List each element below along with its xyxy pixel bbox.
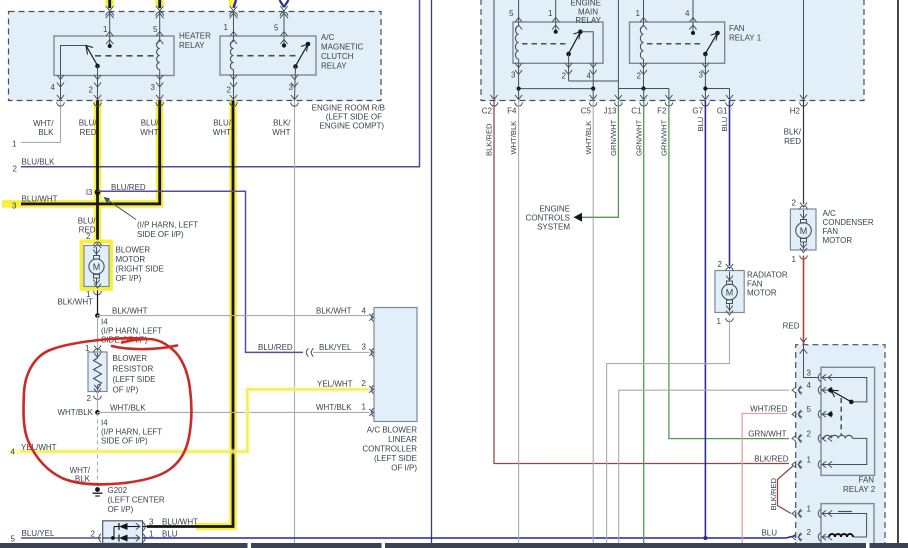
node I4 junction dot (upper)	[95, 313, 100, 318]
motor BLOWER MOTOR box	[84, 246, 109, 287]
blower motor yellow highlight frame	[82, 242, 112, 290]
lower relay switch	[821, 514, 867, 538]
svg-text:(I/P HARN, LEFT: (I/P HARN, LEFT	[101, 327, 162, 336]
svg-text:F4: F4	[507, 107, 517, 116]
H2 riser wire	[803, 0, 805, 101]
fr1 pin3 lead	[704, 54, 706, 89]
wire RED condenser to FR2	[803, 256, 805, 345]
relay lower box	[821, 504, 874, 548]
heater relay pin2 lead	[97, 66, 99, 101]
svg-text:2: 2	[807, 429, 812, 438]
wire C2 BLK/RED	[494, 101, 789, 464]
yellow glow YEL/WHT	[8, 389, 370, 451]
ip harn callout arrow at I3	[104, 198, 136, 220]
fr2 pin connectors and numbers	[818, 373, 820, 381]
svg-text:RED: RED	[80, 128, 97, 137]
resistor BLOWER RESISTOR box	[88, 352, 107, 392]
wire A/C pin3 BLK/WHT long	[294, 101, 296, 544]
red wire entry arrow	[800, 338, 807, 342]
svg-text:BLU/RED: BLU/RED	[111, 183, 146, 192]
svg-text:1: 1	[807, 456, 812, 465]
heater relay pin3 chevrons	[156, 75, 163, 80]
node BLU-G7 junction	[703, 536, 707, 540]
svg-text:ENGINE ROOM R/B: ENGINE ROOM R/B	[312, 104, 385, 113]
wire F2 GRN/WHT	[669, 101, 789, 439]
svg-text:1: 1	[548, 9, 553, 18]
emr mech dashed link	[522, 43, 566, 45]
svg-text:RED: RED	[783, 322, 800, 331]
emr pin3 lead	[518, 63, 520, 88]
svg-text:FAN: FAN	[747, 280, 763, 289]
wire G1 BLU	[729, 101, 731, 267]
svg-text:4: 4	[587, 72, 592, 81]
svg-text:RED: RED	[784, 137, 801, 146]
svg-text:HEATER: HEATER	[179, 32, 211, 41]
fr1 switch arm	[705, 33, 717, 54]
svg-text:RELAY: RELAY	[179, 41, 205, 50]
svg-text:RELAY 2: RELAY 2	[843, 485, 876, 494]
svg-text:M: M	[726, 287, 734, 297]
wire BLU/WHT connector 3 (thick)	[21, 101, 160, 204]
svg-text:(LEFT SIDE: (LEFT SIDE	[113, 375, 156, 384]
svg-text:WHT/BLK: WHT/BLK	[316, 403, 352, 412]
wire heater pin5 top stub	[156, 0, 164, 7]
svg-text:ENGINE COMPT): ENGINE COMPT)	[320, 122, 385, 131]
condenser motor symbol	[800, 202, 807, 207]
svg-text:WHT/BLK: WHT/BLK	[110, 404, 146, 413]
yellow highlight glow BLU/WHT pin3 path	[2, 101, 160, 204]
ground G202	[95, 487, 100, 492]
svg-text:5: 5	[807, 405, 812, 414]
emr pin1 contact	[554, 30, 558, 34]
svg-text:1: 1	[807, 505, 812, 514]
svg-text:H2: H2	[790, 107, 801, 116]
svg-text:2: 2	[227, 86, 232, 95]
svg-text:M: M	[800, 226, 808, 236]
wire BLU/RED heater pin2 (thick)	[96, 101, 99, 242]
emr pin1 wire	[555, 0, 557, 32]
svg-text:MAGNETIC: MAGNETIC	[321, 43, 363, 52]
svg-text:1: 1	[362, 403, 367, 412]
J13 riser wire	[617, 0, 619, 89]
svg-text:4: 4	[685, 9, 690, 18]
wire BLU/RED branch (purple)	[98, 191, 304, 352]
svg-text:YEL/WHT: YEL/WHT	[21, 443, 57, 452]
svg-text:RELAY: RELAY	[321, 62, 347, 71]
long dark vertical wire	[431, 0, 433, 543]
a/c relay pin3 lead	[295, 67, 296, 101]
junction dot emr pin3 bus	[517, 87, 521, 91]
svg-text:CONTROLS: CONTROLS	[526, 214, 570, 223]
svg-text:LINEAR: LINEAR	[388, 435, 417, 444]
relay FAN RELAY 1 box	[630, 22, 725, 63]
svg-text:GRN/WHT: GRN/WHT	[609, 119, 618, 156]
svg-text:2: 2	[89, 86, 94, 95]
wire C1 GRN/WHT	[643, 101, 645, 544]
paren diode pin3	[143, 522, 145, 530]
svg-text:MOTOR: MOTOR	[823, 236, 853, 245]
svg-text:SYSTEM: SYSTEM	[537, 223, 570, 232]
svg-text:OF I/P): OF I/P)	[391, 464, 417, 473]
svg-text:OF I/P): OF I/P)	[113, 386, 139, 395]
svg-text:4: 4	[11, 448, 16, 457]
emr pin4 lead	[592, 63, 594, 88]
fr1 mech dashed link	[647, 43, 701, 45]
wire YEL/WHT connector 4	[21, 389, 370, 451]
svg-text:2: 2	[792, 199, 797, 208]
svg-text:BLOWER: BLOWER	[113, 354, 148, 363]
svg-text:1: 1	[149, 530, 154, 539]
svg-text:2: 2	[807, 528, 812, 537]
wire BLK/WHT controller segment	[97, 316, 99, 318]
svg-text:C5: C5	[581, 107, 592, 116]
relay A/C MAGNETIC CLUTCH RELAY box	[220, 36, 316, 75]
svg-text:A/C BLOWER: A/C BLOWER	[367, 426, 417, 435]
lower relay coil	[853, 536, 867, 538]
svg-text:CLUTCH: CLUTCH	[321, 52, 354, 61]
engine controls arrow	[574, 213, 583, 222]
svg-text:CONDENSER: CONDENSER	[823, 218, 874, 227]
heater relay switch arm	[86, 46, 98, 66]
fr2 coil row	[821, 437, 824, 439]
wire A/C pin2 BLU/WHT long (thick)	[147, 101, 233, 527]
svg-text:BLK/WHT: BLK/WHT	[57, 298, 93, 307]
svg-text:MOTOR: MOTOR	[116, 255, 146, 264]
bottom bar segment 2	[251, 543, 382, 548]
svg-text:WHT/BLK: WHT/BLK	[57, 408, 93, 417]
svg-text:BLK/YEL: BLK/YEL	[319, 343, 352, 352]
svg-text:BLU/YEL: BLU/YEL	[22, 529, 55, 538]
svg-text:WHT/: WHT/	[33, 119, 54, 128]
svg-text:(LEFT SIDE OF: (LEFT SIDE OF	[326, 113, 382, 122]
svg-text:ENGINE: ENGINE	[539, 205, 570, 214]
svg-text:WHT: WHT	[140, 128, 158, 137]
svg-text:1: 1	[85, 344, 90, 353]
svg-text:BLK/RED: BLK/RED	[485, 123, 494, 156]
svg-text:2: 2	[87, 394, 92, 403]
connector splice BLU/RED-BLK/YEL	[306, 348, 308, 356]
svg-text:BLU/: BLU/	[79, 119, 98, 128]
wire gray to FR2 pin4	[619, 390, 789, 543]
wire H2 BLK/RED to condenser motor	[803, 101, 805, 205]
relay ENGINE MAIN RELAY box	[513, 22, 603, 63]
svg-text:YEL/WHT: YEL/WHT	[317, 380, 353, 389]
wire G7 BLU	[704, 101, 706, 539]
fr2 pin4 contact	[828, 388, 833, 393]
svg-text:BLU: BLU	[696, 117, 705, 132]
wire red inside box to pin3	[804, 345, 820, 378]
wire BLK/RED jog	[778, 466, 794, 514]
svg-text:GRN/WHT: GRN/WHT	[748, 430, 786, 439]
fan relay 2 dashed box	[796, 345, 885, 548]
svg-text:BLK/WHT: BLK/WHT	[316, 307, 352, 316]
bottom bar gap backing	[866, 543, 870, 548]
node WHT/BLK junction dot (lower I4)	[95, 410, 100, 415]
emr coil	[518, 0, 520, 26]
svg-text:F2: F2	[657, 107, 667, 116]
wire dashed WHT/BLK to ground	[97, 412, 99, 487]
svg-text:I4: I4	[101, 318, 108, 327]
bus stubs to connector row	[518, 89, 520, 99]
svg-text:1: 1	[717, 317, 722, 326]
svg-text:(I/P HARN, LEFT: (I/P HARN, LEFT	[137, 221, 198, 230]
svg-text:WHT/BLK: WHT/BLK	[584, 121, 593, 155]
heater relay pin4 lead	[60, 76, 62, 101]
svg-text:C1: C1	[631, 107, 642, 116]
fr2 pin5 contact	[828, 412, 833, 417]
wire radiator pin1 gray	[607, 319, 730, 543]
svg-text:WHT/BLK: WHT/BLK	[509, 121, 518, 155]
svg-text:4: 4	[362, 307, 367, 316]
svg-text:J13: J13	[604, 107, 617, 116]
fr2 pin5 internal	[821, 413, 831, 415]
annotation red circle	[24, 338, 192, 484]
bottom bar segment 1	[0, 543, 248, 548]
svg-text:BLU/: BLU/	[78, 217, 97, 226]
svg-text:5: 5	[274, 24, 279, 33]
emr pivot link to pin4	[580, 32, 593, 64]
wire C5 WHT/BLK	[592, 101, 594, 544]
svg-text:BLU/BLK: BLU/BLK	[22, 158, 56, 167]
svg-text:3: 3	[362, 343, 367, 352]
wire BLU/YEL connector 5	[21, 537, 101, 539]
svg-text:4: 4	[807, 381, 812, 390]
paren diode pin1	[143, 534, 145, 542]
fr2 pin4 internal	[821, 389, 831, 391]
wire WHT/RED	[742, 414, 787, 544]
engine room R/B dashed box (right)	[481, 0, 864, 101]
fr1 coil	[643, 0, 645, 26]
svg-text:1: 1	[636, 9, 641, 18]
svg-text:1: 1	[12, 140, 17, 149]
a/c relay switch arm	[296, 44, 309, 66]
emr switch contact	[566, 52, 571, 57]
a/c relay mech dashed link	[237, 55, 299, 57]
a/c relay coil	[233, 12, 235, 42]
svg-text:GRN/WHT: GRN/WHT	[634, 119, 643, 156]
a/c relay pin5 contact	[282, 43, 286, 47]
svg-text:C2: C2	[482, 107, 493, 116]
junction dot fr1 pin2 bus	[641, 86, 645, 90]
bottom bar segment 3	[385, 543, 866, 548]
svg-text:1: 1	[103, 25, 108, 34]
svg-text:BLK/: BLK/	[273, 119, 291, 128]
svg-text:2: 2	[718, 260, 723, 269]
heater relay switch contact	[95, 64, 100, 69]
svg-text:BLU: BLU	[720, 117, 729, 132]
yellow highlight glow A/C BLU/WHT long path	[196, 101, 233, 527]
lower relay connectors	[818, 509, 820, 517]
a/c relay switch pivot	[306, 42, 311, 47]
svg-text:5: 5	[11, 535, 16, 544]
svg-text:BLU/: BLU/	[213, 119, 232, 128]
wire BLU/BLK connector 2	[21, 0, 420, 167]
svg-text:I3: I3	[86, 188, 93, 197]
wire F4 WHT/BLK	[518, 101, 520, 544]
heater relay coil	[159, 12, 161, 42]
wire a/c pin5 top stub	[280, 0, 285, 7]
wire I4 to resistor	[97, 316, 99, 352]
controller pin connectors	[371, 313, 373, 321]
wire resistor to WHT/BLK junction	[97, 391, 99, 412]
J13-C1-F2 bus	[618, 88, 669, 90]
svg-text:BLK/RED: BLK/RED	[769, 477, 778, 510]
svg-text:5: 5	[509, 9, 514, 18]
emr pin2 lead	[568, 54, 570, 81]
svg-text:2: 2	[562, 72, 567, 81]
svg-text:4: 4	[51, 83, 56, 92]
svg-text:RADIATOR: RADIATOR	[747, 271, 788, 280]
svg-text:(LEFT CENTER: (LEFT CENTER	[108, 496, 165, 505]
junction dot emr pin4 bus	[591, 87, 595, 91]
svg-text:2: 2	[637, 72, 642, 81]
svg-text:3: 3	[699, 71, 704, 80]
svg-text:RELAY: RELAY	[575, 16, 601, 25]
a/c relay pin5 wire	[283, 12, 285, 46]
svg-text:WHT: WHT	[272, 128, 290, 137]
svg-text:3: 3	[12, 202, 17, 211]
svg-text:BLU/RED: BLU/RED	[258, 343, 293, 352]
wire WHT/BLK to controller pin1	[98, 411, 370, 413]
yellow highlight glow BLU/RED vertical	[94, 101, 102, 242]
emr pin3-pin4 bus	[519, 88, 594, 90]
heater relay mech dashed link	[95, 55, 157, 57]
bottom bar segment 4	[870, 543, 908, 548]
heater relay pin1 contact	[108, 44, 112, 48]
wire J13 GRN/WHT to engine controls	[581, 101, 618, 218]
svg-text:BLU: BLU	[761, 529, 777, 538]
svg-text:RELAY 1: RELAY 1	[729, 34, 762, 43]
svg-text:SIDE OF I/P): SIDE OF I/P)	[137, 230, 184, 239]
svg-text:BLU/: BLU/	[141, 119, 160, 128]
diode pair symbols	[113, 527, 115, 539]
svg-text:OF I/P): OF I/P)	[116, 274, 142, 283]
svg-text:(I/P HARN, LEFT: (I/P HARN, LEFT	[101, 428, 162, 437]
svg-text:A/C: A/C	[321, 33, 335, 42]
A/C blower linear controller box	[374, 308, 417, 422]
emr pin2 wire to J13 riser	[569, 80, 619, 82]
junction dot fr1 pin3 bus	[703, 86, 707, 90]
fr1 pin3 bus to G1	[705, 88, 729, 90]
svg-text:(LEFT SIDE: (LEFT SIDE	[374, 454, 417, 463]
motor RADIATOR FAN MOTOR box	[715, 271, 744, 313]
svg-text:(RIGHT SIDE: (RIGHT SIDE	[116, 265, 164, 274]
wire BLK/YEL to controller	[313, 351, 370, 353]
fr2 pin3 internal path	[821, 378, 867, 402]
fr2 dashed-edge connectors	[799, 386, 801, 394]
wire BLU/WHT diode link	[143, 526, 147, 528]
wire a/c pin1 top stub	[229, 0, 234, 6]
engine room R/B dashed box (left)	[9, 12, 382, 101]
svg-text:RESISTOR: RESISTOR	[113, 365, 154, 374]
motor A/C CONDENSER FAN MOTOR box	[790, 209, 816, 250]
svg-text:A/C: A/C	[823, 209, 837, 218]
fr2 mech dashed link	[840, 398, 842, 436]
blower motor symbol	[94, 244, 101, 249]
svg-text:G1: G1	[717, 107, 728, 116]
svg-text:FAN: FAN	[823, 227, 839, 236]
fr1 pin4 wire	[692, 0, 694, 33]
svg-text:FAN: FAN	[729, 24, 745, 33]
svg-text:3: 3	[149, 518, 154, 527]
svg-text:BLOWER: BLOWER	[116, 246, 151, 255]
svg-text:OF I/P): OF I/P)	[108, 505, 134, 514]
svg-text:MOTOR: MOTOR	[747, 289, 777, 298]
left box bottom edge connectors	[57, 95, 64, 100]
heater relay pin1 wire	[109, 12, 111, 46]
radiator motor symbol	[726, 264, 733, 269]
svg-text:WHT: WHT	[213, 128, 231, 137]
fr2 switch arm	[831, 390, 852, 402]
svg-text:BLK: BLK	[38, 128, 54, 137]
svg-text:FAN: FAN	[859, 476, 875, 485]
svg-text:G202: G202	[108, 486, 128, 495]
wire WHT/BLK pin4 to connector 1	[21, 101, 61, 143]
svg-text:2: 2	[13, 165, 18, 174]
wire BLK/WHT below motor	[97, 291, 99, 316]
svg-text:2: 2	[362, 379, 367, 388]
svg-text:SIDE OF I/P): SIDE OF I/P)	[101, 437, 148, 446]
relay FAN RELAY 2 box	[821, 367, 875, 475]
fr1 switch contact	[703, 52, 708, 57]
connector row chevrons C2 F4 C5 J13 C1 F2 G7 G1 H2	[490, 95, 497, 100]
svg-text:BLU/WHT: BLU/WHT	[162, 518, 198, 527]
emr switch arm	[569, 32, 581, 54]
wire heater pin1 top stub	[106, 0, 114, 7]
node I3 junction dot	[95, 189, 101, 195]
svg-text:3: 3	[151, 83, 156, 92]
a/c relay switch contact	[293, 64, 298, 69]
svg-text:CONTROLLER: CONTROLLER	[362, 445, 417, 454]
blower resistor symbol	[94, 345, 101, 350]
svg-text:3: 3	[511, 71, 516, 80]
fr1 switch pivot	[715, 31, 720, 36]
svg-text:3: 3	[807, 369, 812, 378]
relay HEATER RELAY box	[54, 36, 174, 76]
svg-text:2: 2	[91, 530, 96, 539]
page right border	[897, 0, 899, 543]
svg-text:G7: G7	[692, 107, 703, 116]
svg-text:I4: I4	[101, 419, 108, 428]
C2 riser inside box	[493, 0, 495, 101]
svg-text:BLK/WHT: BLK/WHT	[112, 307, 148, 316]
heater relay switch common	[61, 46, 87, 76]
svg-text:BLK/RED: BLK/RED	[754, 455, 788, 464]
svg-text:M: M	[93, 262, 101, 272]
svg-text:GRN/WHT: GRN/WHT	[660, 119, 669, 156]
svg-text:BLU: BLU	[162, 530, 178, 539]
svg-text:1: 1	[224, 23, 229, 32]
svg-text:WHT/RED: WHT/RED	[750, 405, 788, 414]
fr2 pin3 contact	[849, 400, 854, 405]
svg-text:BLU/WHT: BLU/WHT	[22, 195, 58, 204]
diode box	[103, 521, 143, 544]
fr1 pin2 lead	[643, 63, 645, 88]
svg-text:5: 5	[153, 25, 158, 34]
svg-text:1: 1	[792, 255, 797, 264]
wire BLK/WHT to controller pin4	[98, 315, 370, 317]
svg-text:3: 3	[289, 83, 294, 92]
svg-text:ENGINE: ENGINE	[570, 0, 601, 8]
fr1 pin4 contact	[691, 31, 695, 35]
emr switch pivot	[578, 30, 583, 35]
svg-text:BLK/: BLK/	[784, 128, 802, 137]
wire BLU long horizontal	[143, 535, 797, 538]
